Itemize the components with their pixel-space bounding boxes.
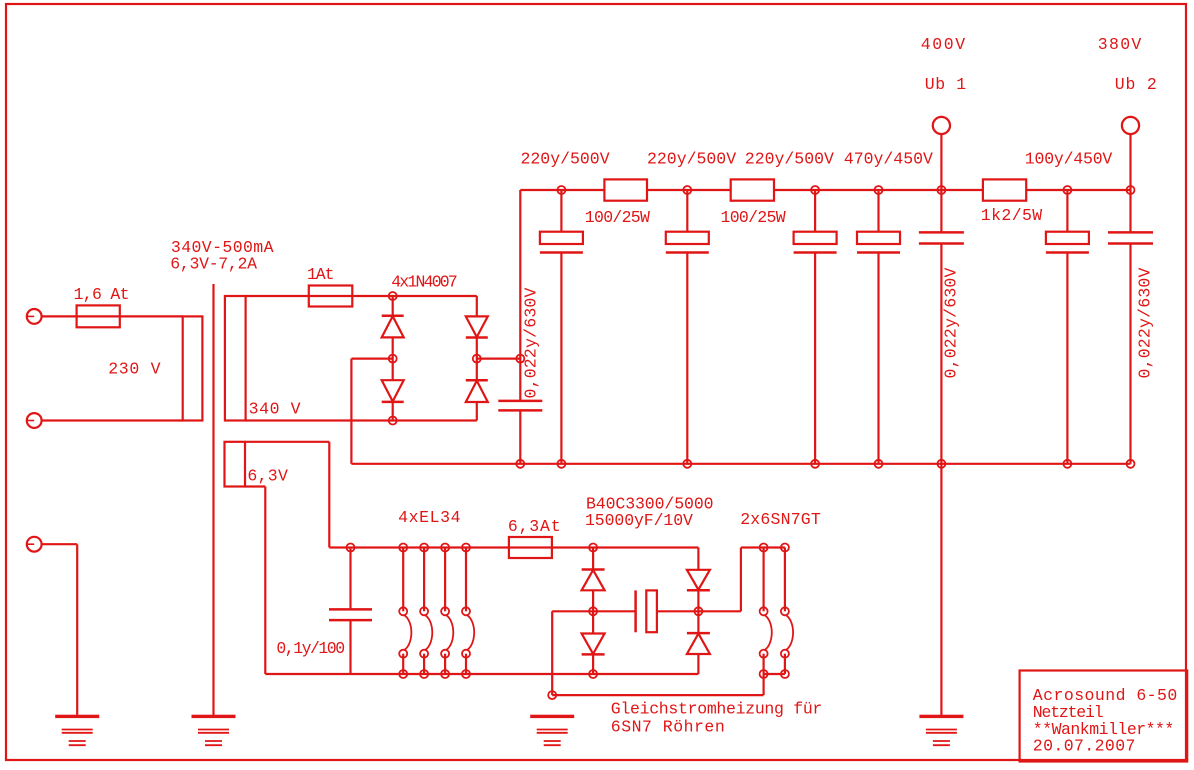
resistor R2 100/25W [731,179,774,200]
wire D6 to bottom [592,654,594,674]
svg-text:1At: 1At [307,265,334,284]
svg-text:6,3At: 6,3At [508,517,562,536]
EL34 heater 1 [399,544,407,552]
wire X2 to transformer [42,419,183,421]
resistor R3 1k2/5W [983,179,1026,200]
wire 340V top to bridge [246,295,477,297]
wire D8 to bottom [697,654,699,674]
diode D4 [466,381,488,402]
ground at X3 [55,715,99,718]
EL34 heater 3 [441,544,449,552]
node bridge2 AC left top [589,544,597,552]
terminal Ub1 [933,117,950,134]
wire bridge - to filter bottom bus [351,358,392,360]
wire heater bottom bus [265,673,698,675]
wire Ub1 stem [940,134,942,232]
capacitor C6 0,022y/630V [919,231,964,234]
EL34 heater 2 [420,544,428,552]
wire 6,3V bottom to heater return [245,485,265,487]
node HV+ junction [516,355,524,363]
svg-text:2x6SN7GT: 2x6SN7GT [740,510,821,529]
wire bridge2 right top down [697,548,699,570]
wire bridge2 minus to ground riser [552,610,635,612]
wire D4 to bottom [476,402,478,421]
fuse 1,6 At [77,315,183,317]
node C2 top [557,186,565,194]
svg-text:220y/500V: 220y/500V [521,150,610,169]
node C3 bottom [683,460,691,468]
capacitor C10 0,1y/100 [347,544,355,552]
svg-text:220y/500V: 220y/500V [647,150,736,169]
wire C11 to bridge2 plus [657,610,699,612]
node Ub1 junction [937,186,945,194]
wire bridge2 plus to 6SN7 heaters [698,610,741,612]
capacitor C3 220y/500V [686,190,688,232]
node bridge2 minus (left mid) [589,607,597,615]
svg-text:340 V: 340 V [249,400,302,419]
diode D5 [592,548,594,570]
transformer TR1 primary winding 230V [183,316,203,420]
diode D7 [687,570,710,590]
node bridge + (left mid) [389,355,397,363]
6SN7 heater 1 bottom node [760,670,768,678]
wire D2 to bottom [392,402,394,421]
wire D1 to node [392,337,394,380]
svg-text:4x1N4007: 4x1N4007 [391,273,457,292]
diode D8 [687,634,710,654]
top bus segment 4 [1026,189,1130,191]
wire bridge + output to C1 node [477,358,521,360]
svg-text:100y/450V: 100y/450V [1025,150,1113,169]
node bridge2 plus (right mid) [694,607,702,615]
wire bridge top right down [476,296,478,316]
node C4 bottom [811,460,819,468]
6SN7 heater 1 [760,544,768,552]
node C5 top [875,186,883,194]
EL34 heater 3 bottom node [441,670,449,678]
svg-text:15000yF/10V: 15000yF/10V [585,511,693,530]
svg-text:100/25W: 100/25W [721,208,786,227]
node C7 bottom [1127,460,1135,468]
wire HV+ riser to top bus [519,190,521,401]
EL34 heater 1 bottom node [399,670,407,678]
wire C7 down to bottom bus [1129,244,1131,464]
ground at Ub1 filter [919,715,963,718]
ground at transformer core [192,715,236,718]
svg-text:20.07.2007: 20.07.2007 [1033,737,1136,756]
wire ground riser [551,611,553,695]
svg-text:Ub 2: Ub 2 [1115,75,1158,94]
wire heater top bus [329,546,698,548]
svg-text:0,1y/100: 0,1y/100 [276,639,344,658]
node C6 bottom bus [937,460,945,468]
svg-text:1,6 At: 1,6 At [74,285,129,304]
wire X1 to fuse [42,315,77,317]
node C3 top [683,186,691,194]
node bridge right mid [473,355,481,363]
transformer TR1 secondary winding 340V [225,296,246,421]
node C9 top [1063,186,1071,194]
node C5 bottom [875,460,883,468]
svg-text:220y/500V: 220y/500V [745,150,834,169]
title block [1020,671,1188,762]
transformer TR1 core [212,284,214,716]
wire D3 to mid [476,338,478,381]
svg-text:380V: 380V [1098,35,1143,54]
wire bottom HV bus [351,463,1130,465]
wire 340V bottom to bridge [246,419,477,421]
svg-text:0,022y/630V: 0,022y/630V [1136,267,1155,378]
EL34 heater 4 [462,544,470,552]
capacitor C1 0,022y/630V [498,400,542,403]
diode D6 [582,634,605,654]
EL34 heater 4 bottom node [462,670,470,678]
svg-text:0,022y/630V: 0,022y/630V [942,267,961,378]
wire D5 to mid [592,590,594,633]
top bus segment 1 [520,189,604,191]
capacitor C9 100y/450V [1066,190,1068,232]
svg-text:470y/450V: 470y/450V [844,150,933,169]
svg-text:0,022y/630V: 0,022y/630V [522,287,541,398]
svg-text:6SN7 Röhren: 6SN7 Röhren [611,718,725,737]
EL34 heater 2 bottom node [420,670,428,678]
capacitor C7 0,022y/630V [1108,231,1153,234]
node C1 bottom [516,460,524,468]
diode D3 [466,316,488,337]
wire D7 to mid [697,590,699,633]
capacitor C2 220y/500V [560,190,562,232]
terminal X1 (mains L) [27,309,42,324]
svg-text:6,3V: 6,3V [247,467,288,486]
node bridge bottom left [389,417,397,425]
node heater ground [548,691,556,699]
node Ub2 junction [1127,186,1135,194]
6SN7 heater 2 [781,544,789,552]
terminal Ub2 [1122,117,1139,134]
wire 6SN7 bottom link [764,673,785,675]
terminal X2 (mains N) [27,413,42,428]
svg-text:400V: 400V [921,35,967,54]
6SN7 heater 2 bottom node [781,670,789,678]
node C2 bottom [557,460,565,468]
svg-text:Ub 1: Ub 1 [925,75,967,94]
fuse 6,3At [509,537,552,558]
node C4 top [811,186,819,194]
resistor R1 100/25W [604,179,647,200]
svg-text:4xEL34: 4xEL34 [398,508,461,527]
svg-text:1k2/5W: 1k2/5W [981,206,1043,225]
capacitor C11 15000yF/10V [634,590,637,632]
wire X3 to ground [42,543,78,545]
diode D1 [392,296,394,316]
wire C6 down to ground [940,244,942,717]
top bus segment 3 [774,189,983,191]
wire heater return bus [552,694,763,696]
fuse 1At [309,286,353,307]
wire Ub2 stem [1129,134,1131,232]
svg-text:100/25W: 100/25W [585,208,650,227]
capacitor C5 470y/450V [877,190,879,232]
diode D2 [382,380,404,401]
wire 6,3V top to heater bus [245,441,329,443]
terminal X3 (earth) [27,537,42,552]
node bridge2 bottom [589,670,597,678]
svg-text:Gleichstromheizung für: Gleichstromheizung für [611,700,822,719]
node C9 bottom [1063,460,1071,468]
capacitor C4 220y/500V [814,190,816,232]
svg-text:230 V: 230 V [108,360,161,379]
transformer TR1 secondary winding 6,3V [225,442,246,487]
ground at heater supply [530,715,574,718]
svg-text:6,3V-7,2A: 6,3V-7,2A [170,255,257,274]
top bus segment 2 [647,189,731,191]
node bridge AC top [389,292,397,300]
